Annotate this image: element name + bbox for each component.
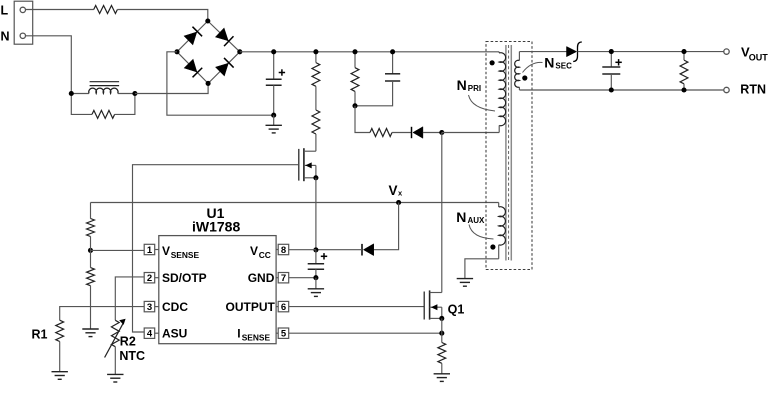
bridge diode D4 (bottom to right) — [215, 58, 233, 76]
pin 5 box — [276, 328, 289, 340]
VSENSE divider resistor RD2 — [87, 250, 95, 285]
label NPRI — [457, 77, 482, 93]
power MOSFET Q1 — [424, 290, 442, 319]
primary phase dot — [490, 60, 495, 65]
bulk capacitor C1 (electrolytic) — [266, 52, 285, 115]
label NSEC — [544, 54, 572, 70]
VCC diode D5 — [316, 244, 374, 256]
svg-text:R2: R2 — [120, 334, 136, 348]
svg-text:GND: GND — [248, 271, 275, 285]
input connector J1 (L/N terminal block) — [14, 1, 33, 44]
junction M1 source — [313, 175, 318, 180]
svg-text:OUT: OUT — [749, 53, 768, 63]
primary winding NPRI — [499, 52, 505, 133]
junction VX — [396, 200, 401, 205]
svg-text:7: 7 — [281, 273, 286, 284]
pin label SD/OTP — [162, 271, 207, 285]
svg-text:N: N — [1, 29, 10, 43]
svg-text:2: 2 — [147, 273, 152, 284]
label RTN — [740, 82, 766, 96]
svg-text:RTN: RTN — [740, 82, 766, 96]
label iW1788 — [192, 219, 240, 235]
pin label ASU — [162, 327, 187, 341]
wire M1 gate to ASU pin — [133, 165, 299, 332]
pin 7 box — [276, 273, 289, 285]
bridge diode D2 (top to right) — [215, 28, 233, 46]
junction GND node — [313, 275, 318, 280]
wire divider junction to pin 1 — [91, 237, 145, 251]
bridge diode D1 (left to top) — [184, 27, 202, 45]
secondary phase dot — [522, 75, 527, 80]
pin label GND — [248, 271, 275, 285]
svg-text:I: I — [237, 327, 240, 341]
current sense resistor RS — [438, 318, 446, 363]
wire L terminal to fuse — [26, 9, 94, 11]
svg-text:x: x — [398, 188, 403, 197]
label R1 — [32, 328, 48, 342]
svg-text:N: N — [544, 54, 554, 70]
svg-text:N: N — [456, 209, 466, 225]
clamp capacitor CC1 — [355, 52, 400, 106]
wire N terminal down to choke — [26, 36, 72, 94]
ground symbol below R2 — [107, 347, 123, 382]
svg-text:PRI: PRI — [468, 84, 481, 93]
svg-text:6: 6 — [281, 302, 286, 313]
common-mode choke L1 (inductor with core) — [71, 82, 135, 94]
wire DC bus from bridge to transformer primary — [240, 51, 499, 53]
pin 6 box — [276, 301, 289, 313]
pin 3 box — [144, 301, 159, 313]
auxiliary winding NAUX — [499, 203, 506, 259]
junction RTN at RL — [681, 87, 686, 92]
wire output diode to VOUT terminal — [578, 51, 724, 53]
svg-text:3: 3 — [147, 302, 152, 313]
label U1 — [207, 205, 225, 221]
junction Q1 source — [439, 316, 444, 321]
svg-text:8: 8 — [281, 245, 286, 256]
op-amp-style IC U1 iW1788 body — [159, 236, 276, 344]
wire secondary bottom to RTN terminal — [519, 89, 723, 91]
wire pin 3 CDC to R1 — [60, 307, 145, 321]
fuse/resistor RF1 on L line — [94, 6, 118, 14]
junction bus at RC1 — [352, 49, 357, 54]
svg-text:Q1: Q1 — [448, 302, 465, 316]
startup MOSFET M1 — [299, 148, 316, 181]
NTC thermistor R2 (variable resistor) — [105, 319, 126, 358]
svg-text:1: 1 — [147, 245, 153, 256]
junction bus at CC1 — [390, 49, 395, 54]
pin 2 box — [144, 273, 159, 285]
wire aux winding to ground — [465, 259, 499, 279]
svg-text:NTC: NTC — [119, 349, 145, 363]
VSENSE divider resistor RD1 — [87, 203, 95, 237]
bridge node bottom — [206, 81, 211, 86]
junction VOUT at RL — [681, 49, 686, 54]
pin label CDC — [162, 300, 188, 314]
junction rail at C1 — [271, 113, 276, 118]
ground symbol below aux winding — [457, 279, 473, 287]
ground symbol below sense resistor — [434, 363, 450, 381]
svg-text:V: V — [250, 244, 258, 258]
wire clamp node to primary bottom — [442, 132, 499, 134]
svg-text:OUTPUT: OUTPUT — [226, 300, 276, 314]
svg-text:SD/OTP: SD/OTP — [162, 271, 207, 285]
pin 4 box — [144, 328, 159, 340]
svg-text:CDC: CDC — [162, 300, 188, 314]
label R2 — [120, 334, 136, 348]
svg-text:SENSE: SENSE — [242, 332, 271, 342]
wire Q1 drain up to primary bottom — [441, 133, 443, 293]
bridge rectifier BR1 frame — [177, 21, 240, 83]
label N — [1, 29, 10, 43]
junction VCC node — [313, 247, 318, 252]
startup resistor RS1 upper — [312, 52, 320, 86]
wire GND pin 7 to ground — [289, 277, 316, 279]
pointer NSEC — [523, 62, 543, 72]
junction bus at C1 — [271, 49, 276, 54]
transformer T1 shield dashed box — [486, 42, 532, 270]
svg-text:SENSE: SENSE — [171, 250, 200, 260]
svg-text:AUX: AUX — [468, 216, 486, 225]
junction VSENSE node — [88, 248, 93, 253]
damping resistor across choke — [71, 94, 135, 119]
svg-text:N: N — [457, 77, 467, 93]
pin 1 box — [144, 244, 159, 256]
bridge node left — [174, 49, 179, 54]
pin label VCC — [250, 244, 271, 260]
ground symbol below C1 — [266, 115, 282, 133]
output capacitor C3 (electrolytic) — [602, 52, 622, 90]
bridge diode D3 (left to bottom) — [184, 59, 202, 77]
resistor R1 — [56, 320, 64, 341]
junction primary bottom / Q1 drain node — [439, 130, 444, 135]
wire VCC node to pin 8 — [289, 249, 316, 251]
pointer NAUX — [469, 225, 494, 240]
transformer core lines — [506, 45, 511, 261]
bridge node top — [205, 18, 210, 23]
RTN terminal — [724, 87, 729, 92]
ground symbol below divider — [82, 286, 98, 337]
junction choke left — [69, 91, 74, 96]
clamp resistor RC1 — [351, 52, 359, 106]
svg-text:V: V — [162, 244, 170, 258]
wire M1 source down to VCC node — [315, 178, 317, 250]
label VX — [389, 183, 404, 198]
junction bus at RS1 — [313, 49, 318, 54]
wire bridge negative to ground rail — [167, 52, 274, 115]
junction RTN at C3 — [609, 87, 614, 92]
junction VOUT at C3 — [609, 49, 614, 54]
VOUT terminal — [724, 49, 729, 54]
VCC capacitor C2 (electrolytic) — [308, 250, 328, 278]
node VX wire (aux sense line) — [91, 202, 499, 204]
svg-text:ASU: ASU — [162, 327, 187, 341]
aux phase dot — [490, 244, 495, 249]
label VOUT — [741, 44, 768, 62]
wire fuse to bridge top node — [117, 10, 207, 22]
pin label VSENSE — [162, 244, 200, 260]
clamp diode DC1 — [392, 127, 442, 139]
svg-text:L: L — [1, 3, 9, 17]
label NTC — [119, 349, 145, 363]
svg-text:5: 5 — [281, 329, 287, 340]
load resistor RL — [680, 52, 688, 90]
bridge node right — [237, 49, 242, 54]
svg-text:iW1788: iW1788 — [192, 219, 240, 235]
svg-text:V: V — [389, 183, 398, 198]
wire VX down to VCC diode — [374, 203, 399, 250]
label L — [1, 3, 9, 17]
wire pin 5 ISENSE to Q1 source — [289, 332, 442, 334]
wire secondary top to output diode — [519, 51, 566, 53]
svg-text:4: 4 — [147, 329, 153, 340]
output rectifier diode D6 — [567, 42, 582, 62]
clamp series resistor RC2 — [355, 106, 392, 137]
pin label OUTPUT — [226, 300, 276, 314]
junction choke right — [132, 91, 137, 96]
wire pin 2 SD/OTP to NTC — [115, 277, 144, 320]
junction ISENSE node — [439, 331, 444, 336]
label Q1 — [448, 302, 465, 316]
label NAUX — [456, 209, 485, 225]
pin label ISENSE — [237, 327, 270, 343]
wire choke to bridge bottom node — [135, 83, 208, 93]
junction clamp RC node — [352, 103, 357, 108]
ground symbol below R1 — [52, 342, 68, 380]
wire pin 6 OUTPUT to Q1 gate — [289, 306, 425, 308]
secondary winding NSEC — [515, 52, 520, 90]
pin 8 box — [276, 244, 289, 256]
ground symbol at GND pin — [308, 278, 324, 297]
svg-text:R1: R1 — [32, 328, 48, 342]
svg-text:SEC: SEC — [555, 61, 572, 70]
svg-text:CC: CC — [259, 250, 271, 260]
pointer NPRI — [469, 95, 496, 111]
startup resistor RS2 lower — [312, 86, 320, 151]
